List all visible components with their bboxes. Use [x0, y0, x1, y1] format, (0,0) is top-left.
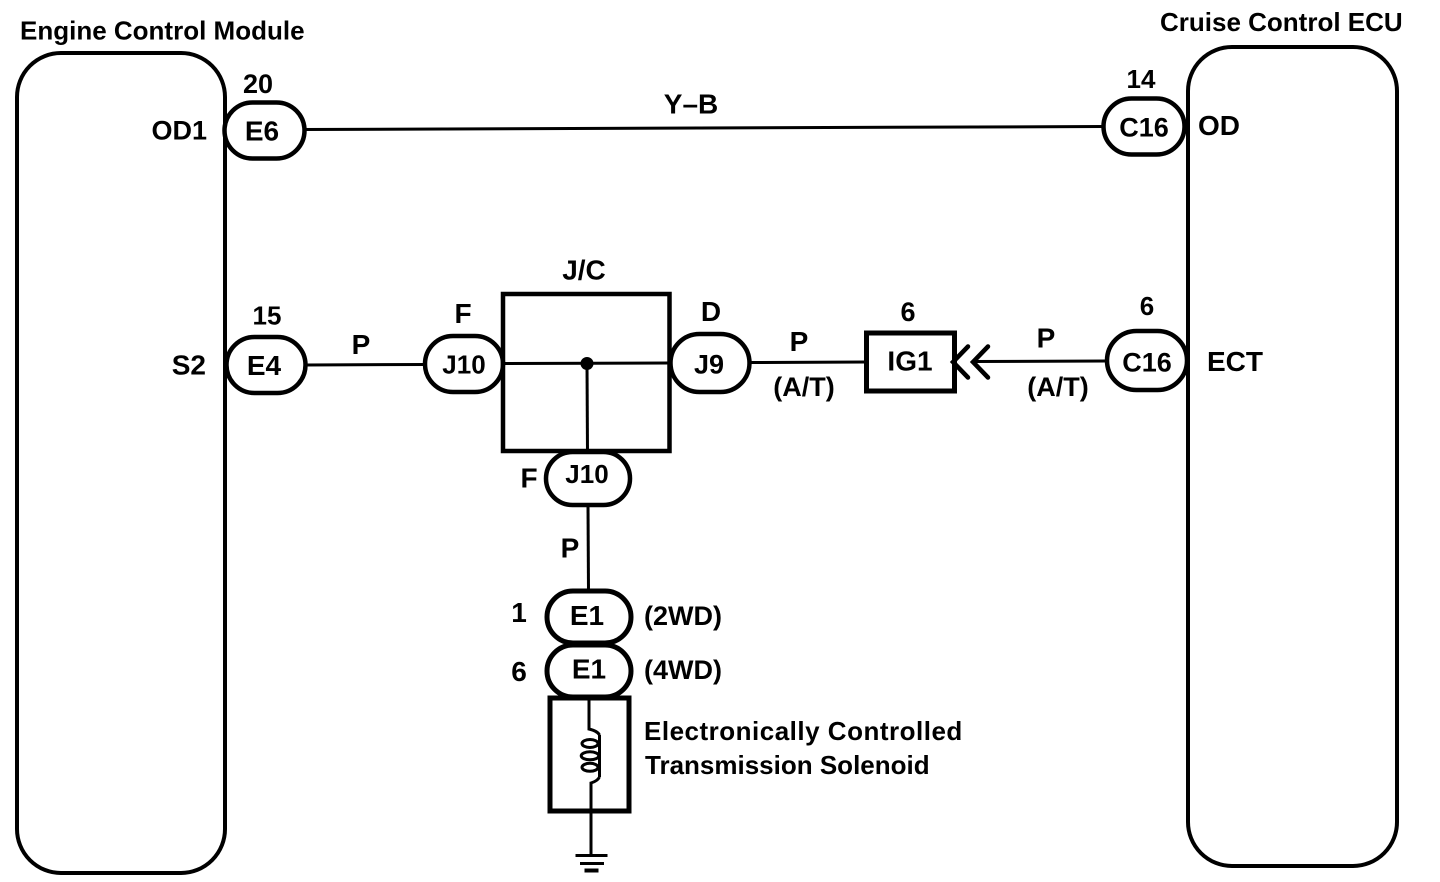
svg-text:J9: J9 [694, 350, 724, 380]
svg-text:(4WD): (4WD) [644, 655, 722, 685]
svg-text:(2WD): (2WD) [644, 601, 722, 631]
svg-text:C16: C16 [1122, 348, 1172, 378]
svg-text:15: 15 [253, 301, 282, 331]
svg-text:E6: E6 [245, 116, 279, 147]
svg-text:ECT: ECT [1207, 346, 1263, 377]
connector E1 pin 6 (4WD) [511, 645, 722, 697]
connector E6 pin 20 [225, 69, 305, 159]
svg-text:IG1: IG1 [887, 346, 932, 377]
solenoid box [550, 698, 629, 811]
svg-text:20: 20 [243, 69, 273, 99]
svg-text:P: P [561, 533, 580, 564]
ECU block: Cruise Control ECU box [1188, 47, 1397, 866]
svg-text:Transmission Solenoid: Transmission Solenoid [645, 750, 930, 780]
wire: J10 down to E1 [587, 505, 591, 592]
arrowheads (double chevron) at IG1 [953, 347, 988, 378]
svg-text:OD1: OD1 [151, 116, 207, 146]
svg-text:P: P [1037, 323, 1056, 354]
wire: solenoid to ground [590, 811, 593, 856]
svg-text:1: 1 [511, 597, 527, 628]
junction connector J10 pin F (lower) [520, 452, 630, 505]
connector C16 pin 6 [1107, 291, 1187, 390]
connector E4 pin 15 [227, 301, 306, 394]
svg-text:Electronically Controlled: Electronically Controlled [644, 716, 963, 746]
svg-text:E1: E1 [570, 600, 604, 631]
connector C16 pin 14 [1104, 64, 1185, 155]
svg-text:E1: E1 [572, 654, 606, 685]
svg-text:Cruise Control ECU: Cruise Control ECU [1160, 7, 1403, 37]
wire: J9 to IG1 [750, 361, 868, 365]
svg-text:P: P [790, 326, 809, 357]
fuse IG1 pin 6 [867, 297, 955, 391]
svg-text:(A/T): (A/T) [1027, 372, 1088, 402]
svg-text:Engine Control Module: Engine Control Module [20, 16, 305, 46]
connector E1 pin 1 (2WD) [511, 591, 722, 643]
svg-text:6: 6 [900, 297, 915, 327]
svg-text:J10: J10 [565, 459, 608, 489]
ground [576, 856, 608, 871]
wire through J/C box [503, 362, 670, 366]
junction node dot [581, 357, 594, 370]
svg-text:J/C: J/C [562, 255, 606, 286]
wire: C16 to arrowheads [975, 360, 1107, 364]
junction block J/C [503, 255, 670, 452]
svg-text:6: 6 [1140, 291, 1154, 321]
solenoid coil L1 [581, 735, 599, 777]
svg-text:6: 6 [511, 656, 527, 687]
svg-text:(A/T): (A/T) [773, 372, 834, 402]
svg-text:F: F [454, 298, 471, 329]
svg-text:S2: S2 [172, 350, 206, 381]
svg-text:C16: C16 [1119, 113, 1169, 143]
svg-text:P: P [352, 329, 371, 360]
wire: node down to lower J10 [586, 364, 590, 454]
svg-text:E4: E4 [247, 350, 282, 381]
solenoid internal wire bottom [591, 777, 600, 811]
svg-text:OD: OD [1198, 110, 1240, 141]
ECU block: Engine Control Module box [17, 53, 225, 873]
solenoid internal wire top [589, 698, 600, 735]
wire: E4 to J10 [305, 363, 426, 367]
wire: E6 to C16 (Y-B) [303, 127, 1104, 130]
svg-text:D: D [701, 296, 721, 327]
svg-text:F: F [520, 463, 537, 494]
svg-text:Y–B: Y–B [664, 89, 718, 120]
svg-text:14: 14 [1127, 64, 1156, 94]
svg-text:J10: J10 [442, 350, 485, 380]
connector J9 pin D [671, 296, 750, 392]
junction connector J10 pin F (middle) [425, 298, 503, 392]
